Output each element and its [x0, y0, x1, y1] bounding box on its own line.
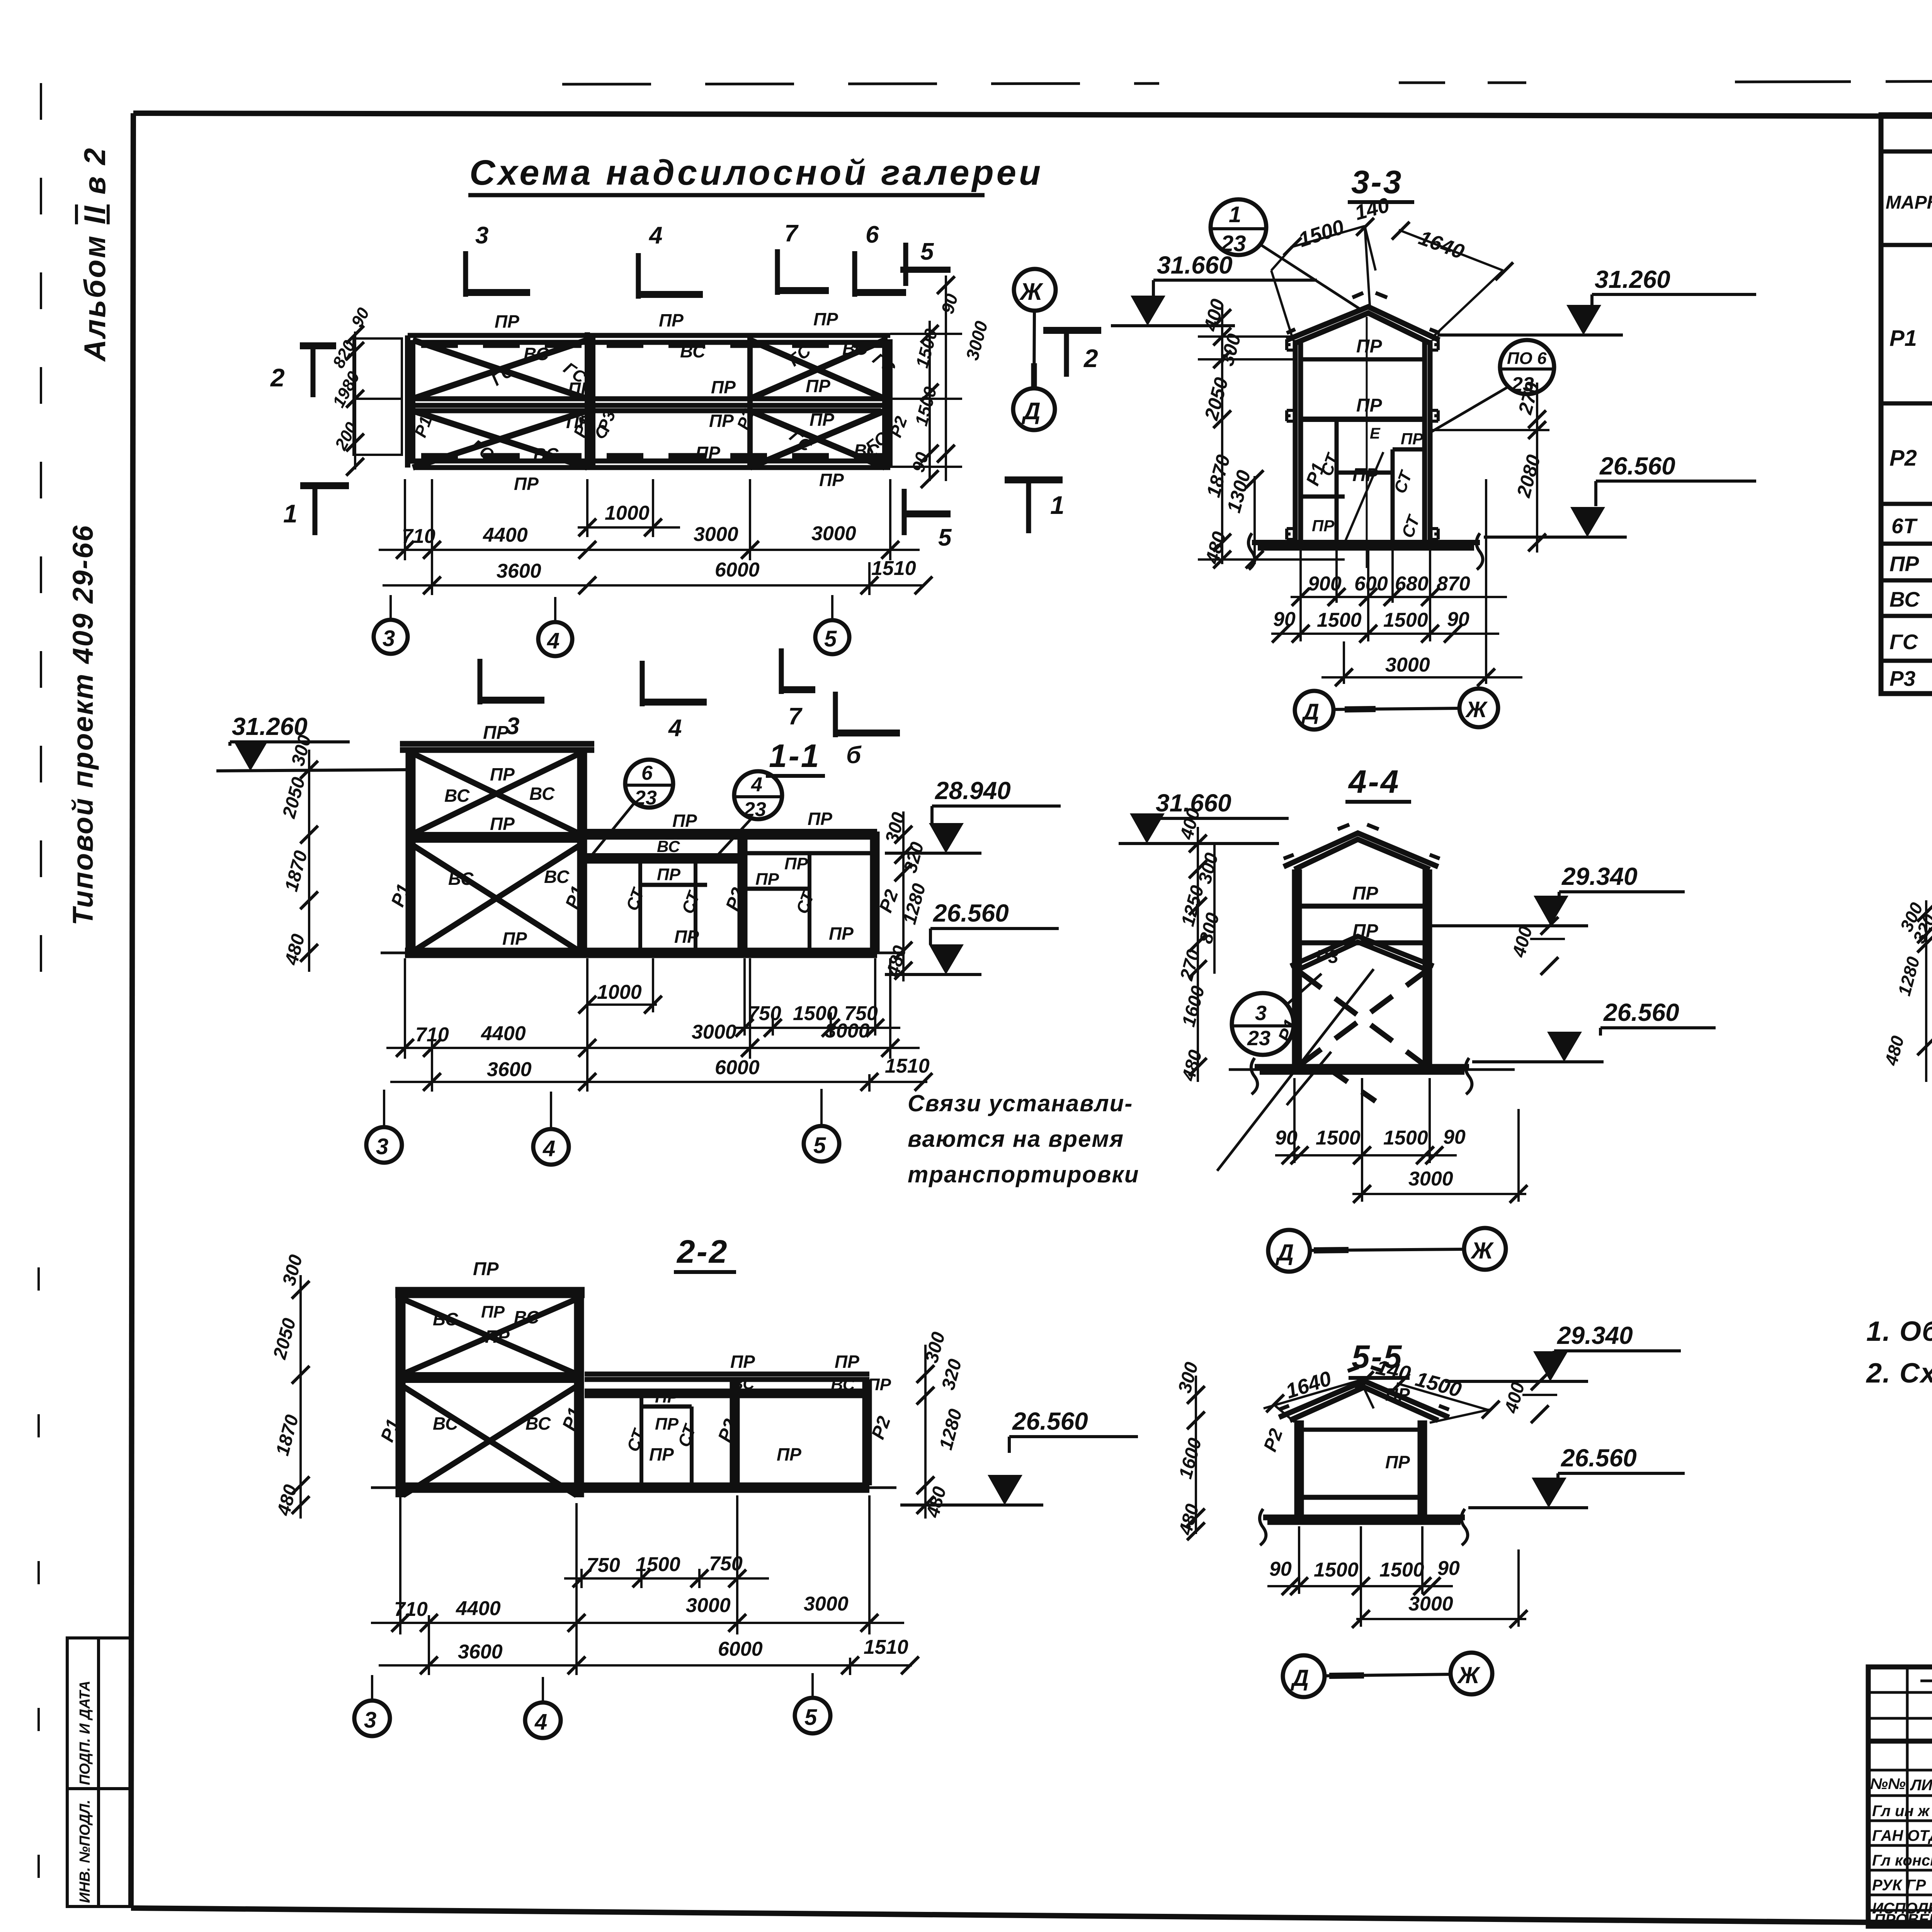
gallery columns/posts: [640, 832, 877, 953]
svg-text:ПР: ПР: [655, 1388, 679, 1406]
svg-text:б: б: [846, 742, 862, 769]
svg-text:1500: 1500: [911, 384, 940, 428]
dashes in empty revision rows: [1920, 1681, 1932, 1833]
svg-text:ПР: ПР: [657, 865, 681, 884]
svg-text:ПОДП. И ДАТА: ПОДП. И ДАТА: [77, 1681, 93, 1785]
svg-text:ПР: ПР: [1385, 1384, 1410, 1405]
svg-text:ПР: ПР: [709, 411, 734, 431]
svg-text:23: 23: [1247, 1027, 1270, 1050]
bottom chord: [405, 951, 877, 955]
svg-text:ПР: ПР: [649, 1444, 674, 1464]
axis circles: [1283, 1655, 1325, 1697]
svg-text:750: 750: [587, 1554, 620, 1577]
svg-text:ПР: ПР: [1889, 552, 1919, 576]
svg-text:1280: 1280: [935, 1407, 966, 1452]
svg-text:ПР: ПР: [1352, 921, 1379, 941]
svg-text:ВС: ВС: [680, 341, 706, 361]
bottom dims: [1267, 1526, 1526, 1627]
right dimension chains: [890, 243, 962, 481]
svg-text:ВС: ВС: [1889, 587, 1920, 611]
svg-text:Д: Д: [1275, 1240, 1294, 1265]
svg-text:1600: 1600: [1178, 984, 1209, 1029]
right flags 2 and 1: [1043, 330, 1101, 377]
svg-text:Связи устанавли-: Связи устанавли-: [908, 1090, 1133, 1116]
svg-text:ПР: ПР: [502, 929, 527, 949]
svg-text:СТ: СТ: [793, 888, 818, 916]
svg-text:3000: 3000: [804, 1593, 849, 1615]
svg-text:1500: 1500: [1317, 609, 1362, 631]
svg-text:6000: 6000: [715, 1056, 760, 1079]
svg-text:28.940: 28.940: [935, 777, 1011, 804]
svg-text:3000: 3000: [694, 523, 738, 546]
short beams in gallery: [640, 885, 810, 889]
svg-text:ПР: ПР: [696, 443, 720, 463]
svg-text:4: 4: [668, 715, 682, 742]
svg-text:90: 90: [1443, 1126, 1466, 1148]
svg-text:710: 710: [402, 525, 435, 548]
left end protruding box: [354, 332, 402, 469]
svg-text:Схема надсилосной галереи: Схема надсилосной галереи: [469, 153, 1043, 192]
svg-text:480: 480: [922, 1484, 950, 1520]
svg-text:400: 400: [1501, 1380, 1529, 1415]
tower top beam: [395, 1290, 585, 1295]
right dim chain: [924, 1345, 927, 1519]
svg-text:ПР: ПР: [514, 474, 539, 494]
svg-text:ВС: ВС: [444, 786, 470, 806]
svg-text:600: 600: [1354, 573, 1388, 595]
svg-text:ПР: ПР: [490, 814, 515, 834]
svg-text:Е: Е: [1370, 425, 1381, 442]
tower X braces: [413, 753, 580, 951]
svg-text:ВС: ВС: [831, 1375, 855, 1394]
left dim chain: [1197, 827, 1199, 1082]
svg-text:1870: 1870: [281, 849, 311, 894]
svg-text:6000: 6000: [718, 1638, 763, 1660]
detail circle 3/23: [1232, 993, 1294, 1055]
svg-text:1: 1: [1050, 491, 1065, 519]
columns: [1295, 340, 1430, 543]
svg-text:90: 90: [937, 291, 962, 316]
svg-text:3600: 3600: [458, 1641, 503, 1663]
svg-text:4400: 4400: [481, 1022, 526, 1045]
gallery beams: [585, 1374, 869, 1396]
svg-text:1500: 1500: [1296, 215, 1347, 252]
axis circles: [371, 1675, 373, 1700]
svg-text:31.660: 31.660: [1157, 251, 1233, 279]
svg-text:Ж: Ж: [1019, 279, 1044, 305]
svg-text:5: 5: [813, 1133, 826, 1158]
svg-text:90: 90: [1269, 1558, 1292, 1580]
svg-text:750: 750: [748, 1002, 781, 1025]
svg-text:3000: 3000: [811, 522, 856, 545]
svg-text:ПР: ПР: [808, 809, 832, 829]
svg-text:ПР: ПР: [829, 923, 854, 944]
svg-text:90: 90: [1447, 608, 1469, 631]
svg-text:26.560: 26.560: [933, 899, 1009, 927]
svg-text:300: 300: [881, 810, 909, 845]
chords of gallery band (double lines): [405, 335, 890, 468]
interior beams/posts: [1301, 317, 1425, 568]
svg-text:ВС: ВС: [529, 784, 555, 804]
svg-text:6Т: 6Т: [1891, 514, 1918, 538]
svg-text:Гл ин ж п: Гл ин ж п: [1872, 1803, 1932, 1820]
svg-text:ПР: ПР: [867, 1375, 891, 1394]
svg-text:29.340: 29.340: [1561, 862, 1638, 890]
svg-text:90: 90: [348, 304, 373, 330]
svg-text:1000: 1000: [605, 502, 650, 524]
svg-text:Р3: Р3: [1316, 947, 1338, 967]
svg-text:480: 480: [1178, 1048, 1206, 1083]
svg-text:29.340: 29.340: [1557, 1321, 1633, 1349]
left dim chain: [1925, 900, 1927, 1082]
svg-text:300: 300: [279, 1252, 306, 1287]
bottom dims: [1275, 1078, 1526, 1202]
top margin dashes: [562, 83, 1159, 84]
svg-text:№№: №№: [1870, 1776, 1906, 1793]
svg-text:3: 3: [364, 1708, 376, 1733]
left dim chain: [299, 1275, 302, 1519]
svg-text:РУК ГР: РУК ГР: [1872, 1877, 1926, 1894]
svg-text:2-2: 2-2: [676, 1233, 728, 1270]
svg-text:ВС: ВС: [514, 1307, 539, 1327]
right dims: [1430, 383, 1549, 553]
svg-text:ГС: ГС: [1889, 630, 1918, 654]
svg-text:ВС: ВС: [533, 444, 559, 464]
svg-text:3: 3: [1255, 1002, 1267, 1025]
svg-text:ВС: ВС: [544, 867, 570, 887]
svg-text:ПР: ПР: [1352, 883, 1379, 904]
svg-text:Р2: Р2: [1260, 1426, 1287, 1454]
svg-text:6000: 6000: [715, 559, 760, 581]
svg-text:1500: 1500: [1379, 1559, 1424, 1581]
svg-text:ПР: ПР: [490, 764, 515, 784]
svg-text:транспортировки: транспортировки: [908, 1162, 1139, 1187]
svg-text:ПР: ПР: [1401, 430, 1423, 448]
svg-text:3600: 3600: [497, 560, 541, 582]
svg-text:ВС: ВС: [433, 1413, 458, 1434]
bottom section flags: [480, 489, 951, 737]
svg-text:750: 750: [709, 1553, 743, 1575]
svg-text:4400: 4400: [456, 1597, 501, 1620]
axis circles bottom: [389, 595, 392, 620]
svg-text:ВС: ВС: [448, 869, 474, 889]
svg-text:ПР: ПР: [777, 1444, 801, 1464]
svg-text:4400: 4400: [483, 524, 528, 546]
svg-text:5: 5: [804, 1705, 817, 1730]
svg-text:710: 710: [415, 1024, 449, 1046]
svg-text:4: 4: [751, 774, 762, 796]
svg-text:Типовой проект 409 29-66: Типовой проект 409 29-66: [67, 524, 99, 925]
columns: [1294, 869, 1430, 1067]
svg-text:3: 3: [376, 1134, 388, 1159]
svg-text:ВС: ВС: [842, 338, 868, 359]
svg-text:31.260: 31.260: [1595, 265, 1670, 293]
beams: [1299, 906, 1425, 943]
svg-text:ПР: ПР: [495, 311, 519, 332]
bottom dim rows: [1271, 479, 1522, 684]
svg-text:1-1: 1-1: [769, 738, 820, 774]
small bracket marks at apex/eaves: [1287, 293, 1440, 333]
gallery columns: [641, 1379, 869, 1485]
svg-text:Гл конст: Гл конст: [1872, 1852, 1932, 1869]
svg-text:320: 320: [938, 1357, 966, 1392]
axis circles: [1268, 1230, 1310, 1272]
svg-text:90: 90: [1273, 608, 1296, 631]
svg-text:7: 7: [788, 703, 803, 730]
svg-text:1500: 1500: [1383, 609, 1428, 631]
axis circles right: [1014, 269, 1056, 311]
svg-text:ПР: ПР: [1312, 517, 1335, 535]
svg-text:3000: 3000: [1408, 1168, 1453, 1190]
svg-text:710: 710: [394, 1598, 428, 1621]
svg-text:Д: Д: [1290, 1665, 1309, 1691]
svg-text:1500: 1500: [1383, 1127, 1428, 1149]
bottom chord: [1263, 1517, 1465, 1522]
svg-text:3: 3: [383, 626, 395, 651]
svg-text:Д: Д: [1301, 699, 1319, 724]
svg-text:ЛИСТ: ЛИСТ: [1910, 1777, 1932, 1794]
svg-text:1. Общие указания смотреть: 1. Общие указания смотреть на листе КМ-2…: [1866, 1316, 1932, 1347]
svg-text:5: 5: [920, 238, 934, 265]
svg-text:ГАН ОТД: ГАН ОТД: [1872, 1827, 1932, 1844]
detail circle ПО 6/23: [1500, 340, 1554, 394]
svg-text:1510: 1510: [871, 557, 916, 580]
tower columns: [398, 1295, 582, 1497]
svg-text:СТ: СТ: [623, 1426, 649, 1454]
svg-text:ПР: ПР: [755, 870, 779, 889]
svg-text:3: 3: [475, 222, 488, 249]
bottom dimension chains: [379, 479, 923, 595]
svg-text:1: 1: [1229, 202, 1241, 227]
X dashed braces: [1299, 972, 1425, 1101]
svg-text:1510: 1510: [885, 1055, 930, 1077]
axis circles Д Ж: [1295, 691, 1333, 730]
svg-text:23: 23: [743, 798, 766, 821]
svg-text:ВС: ВС: [526, 1413, 551, 1434]
bottom-left stamp boxes: [67, 1638, 131, 1906]
bottom dims: [386, 958, 927, 1092]
tower top beam: [400, 744, 594, 750]
svg-text:480: 480: [1175, 1502, 1203, 1537]
svg-text:2: 2: [270, 363, 285, 392]
svg-text:3000: 3000: [692, 1021, 736, 1043]
svg-text:4: 4: [648, 222, 662, 249]
svg-text:ПРОВЕР: ПРОВЕР: [1874, 1911, 1932, 1928]
svg-text:900: 900: [1308, 573, 1342, 595]
left dim chain: [1195, 1376, 1197, 1534]
svg-text:5: 5: [938, 524, 952, 551]
svg-text:ПР: ПР: [1356, 395, 1383, 416]
tower mid beam: [408, 835, 585, 840]
svg-text:480: 480: [1201, 529, 1230, 566]
columns: [1297, 1420, 1425, 1517]
right dim chain: [902, 811, 905, 981]
svg-text:400: 400: [1509, 924, 1536, 959]
svg-text:ВС: ВС: [524, 344, 549, 364]
svg-text:Альбом II в 2: Альбом II в 2: [78, 146, 112, 362]
svg-text:Ж: Ж: [1465, 697, 1488, 722]
svg-text:2. Схему склада цемента смо: 2. Схему склада цемента смотреть на лист…: [1866, 1358, 1932, 1389]
svg-text:5: 5: [824, 626, 837, 651]
svg-text:26.560: 26.560: [1603, 998, 1679, 1026]
svg-text:480: 480: [1881, 1034, 1908, 1068]
svg-text:Р3: Р3: [1889, 667, 1915, 690]
svg-text:ваются на время: ваются на время: [908, 1126, 1124, 1152]
end posts and interior posts: [408, 332, 890, 469]
svg-text:ПР: ПР: [835, 1352, 859, 1372]
top section flags 3 4 7 6 5: [466, 249, 906, 299]
svg-text:1500: 1500: [1316, 1127, 1361, 1149]
svg-text:1640: 1640: [1416, 226, 1467, 264]
tower X braces: [403, 1299, 577, 1495]
svg-text:3000: 3000: [1385, 654, 1430, 676]
svg-text:ПР: ПР: [485, 1327, 510, 1347]
left dim chain: [308, 750, 310, 972]
svg-text:ВС: ВС: [731, 1374, 755, 1393]
svg-text:ПР: ПР: [810, 410, 834, 430]
roof: [1279, 1381, 1449, 1420]
svg-text:400: 400: [1199, 297, 1229, 334]
bottom chord: [1255, 1067, 1469, 1072]
bottom chord with break marks: [1252, 543, 1480, 548]
svg-text:1870: 1870: [272, 1413, 303, 1458]
svg-text:3000: 3000: [686, 1594, 731, 1617]
svg-text:3000: 3000: [1408, 1593, 1453, 1615]
svg-text:90: 90: [1275, 1127, 1298, 1149]
svg-text:ВС: ВС: [433, 1309, 458, 1329]
svg-text:ПР: ПР: [819, 470, 844, 490]
svg-text:2080: 2080: [1512, 452, 1544, 500]
svg-text:2: 2: [1083, 344, 1098, 372]
svg-text:Р1: Р1: [1889, 326, 1917, 351]
detail circle 1/23: [1211, 199, 1266, 255]
svg-text:ИНВ. №ПОДЛ.: ИНВ. №ПОДЛ.: [77, 1800, 93, 1903]
svg-text:6: 6: [641, 762, 653, 784]
dashed BC chord lines: [421, 345, 883, 456]
axis circles: [383, 1090, 385, 1128]
svg-text:Ж: Ж: [1470, 1238, 1494, 1264]
svg-text:ПР: ПР: [483, 723, 509, 743]
svg-text:1: 1: [283, 499, 298, 528]
svg-text:ПР: ПР: [730, 1352, 755, 1372]
left rotated dims: [329, 304, 373, 454]
svg-text:ПР: ПР: [481, 1303, 505, 1321]
svg-text:26.560: 26.560: [1599, 452, 1675, 480]
svg-text:4-4: 4-4: [1348, 764, 1400, 800]
svg-text:СТ: СТ: [678, 888, 704, 916]
svg-text:1510: 1510: [864, 1636, 908, 1658]
svg-text:300: 300: [1174, 1360, 1202, 1395]
tower mid beam: [398, 1375, 582, 1380]
svg-text:1600: 1600: [1175, 1436, 1206, 1481]
svg-text:ПР: ПР: [1385, 1452, 1410, 1472]
svg-text:23: 23: [634, 787, 657, 809]
svg-text:ПР: ПР: [473, 1259, 499, 1279]
svg-text:СТ: СТ: [1398, 512, 1424, 540]
fan dims: [1264, 1380, 1490, 1423]
svg-text:26.560: 26.560: [1561, 1444, 1637, 1472]
svg-text:6: 6: [866, 221, 879, 248]
svg-text:4: 4: [547, 628, 560, 653]
svg-text:4: 4: [543, 1136, 555, 1161]
svg-text:ПР: ПР: [1356, 336, 1383, 357]
svg-text:ПР: ПР: [813, 309, 838, 329]
P3 inner roof: [1291, 936, 1434, 969]
svg-text:ПР: ПР: [806, 376, 830, 396]
channel bracket marks: [1287, 339, 1438, 539]
signature column texts: [1870, 1776, 1932, 1928]
svg-text:ПР: ПР: [711, 377, 736, 397]
roof: [1287, 307, 1439, 343]
svg-text:90: 90: [1437, 1557, 1460, 1580]
left dims: [1198, 305, 1345, 564]
bottom dims: [371, 1495, 912, 1675]
svg-text:2050: 2050: [269, 1316, 300, 1362]
svg-text:Ж: Ж: [1457, 1662, 1481, 1688]
svg-text:СТ: СТ: [622, 885, 648, 913]
svg-text:2050: 2050: [279, 775, 309, 821]
svg-text:1980: 1980: [329, 368, 364, 411]
tower columns: [408, 750, 585, 953]
svg-text:ПР: ПР: [672, 811, 697, 831]
svg-text:3600: 3600: [487, 1058, 532, 1081]
bottom chord: [398, 1485, 869, 1490]
svg-text:1500: 1500: [1314, 1559, 1359, 1581]
X braces top-left bay: [413, 340, 885, 468]
detail circles: [625, 760, 673, 808]
svg-text:680: 680: [1395, 573, 1429, 595]
svg-text:ПР: ПР: [674, 927, 699, 947]
top fan dims: [1271, 226, 1503, 338]
svg-text:Д: Д: [1021, 398, 1041, 425]
svg-text:480: 480: [281, 932, 309, 967]
svg-text:3-3: 3-3: [1351, 164, 1403, 200]
svg-text:ПР: ПР: [659, 310, 684, 330]
svg-text:ВС: ВС: [657, 837, 680, 855]
svg-text:1500: 1500: [636, 1553, 680, 1576]
svg-text:3000: 3000: [825, 1020, 870, 1042]
labels on plan: [495, 309, 879, 494]
svg-text:1280: 1280: [1894, 954, 1923, 998]
svg-text:870: 870: [1437, 573, 1470, 595]
svg-text:7: 7: [784, 220, 799, 247]
svg-text:ГС: ГС: [869, 349, 899, 379]
svg-text:МАРКА: МАРКА: [1886, 192, 1932, 213]
svg-text:480: 480: [273, 1482, 301, 1518]
svg-text:ПО 6: ПО 6: [1507, 349, 1547, 368]
margin dashed line left: [40, 83, 42, 1012]
svg-text:ПР: ПР: [784, 854, 808, 873]
svg-text:Р2: Р2: [1889, 446, 1917, 471]
svg-text:3000: 3000: [962, 319, 992, 362]
svg-text:26.560: 26.560: [1012, 1407, 1088, 1435]
svg-text:270: 270: [1176, 947, 1204, 983]
svg-text:1000: 1000: [597, 981, 642, 1003]
roof: [1284, 833, 1438, 869]
svg-text:4: 4: [534, 1709, 547, 1735]
svg-text:ПР: ПР: [1352, 465, 1379, 485]
beams: [1301, 1428, 1420, 1432]
svg-text:ПР: ПР: [655, 1415, 679, 1434]
svg-text:200: 200: [331, 419, 361, 453]
gallery beams right: [585, 832, 877, 861]
